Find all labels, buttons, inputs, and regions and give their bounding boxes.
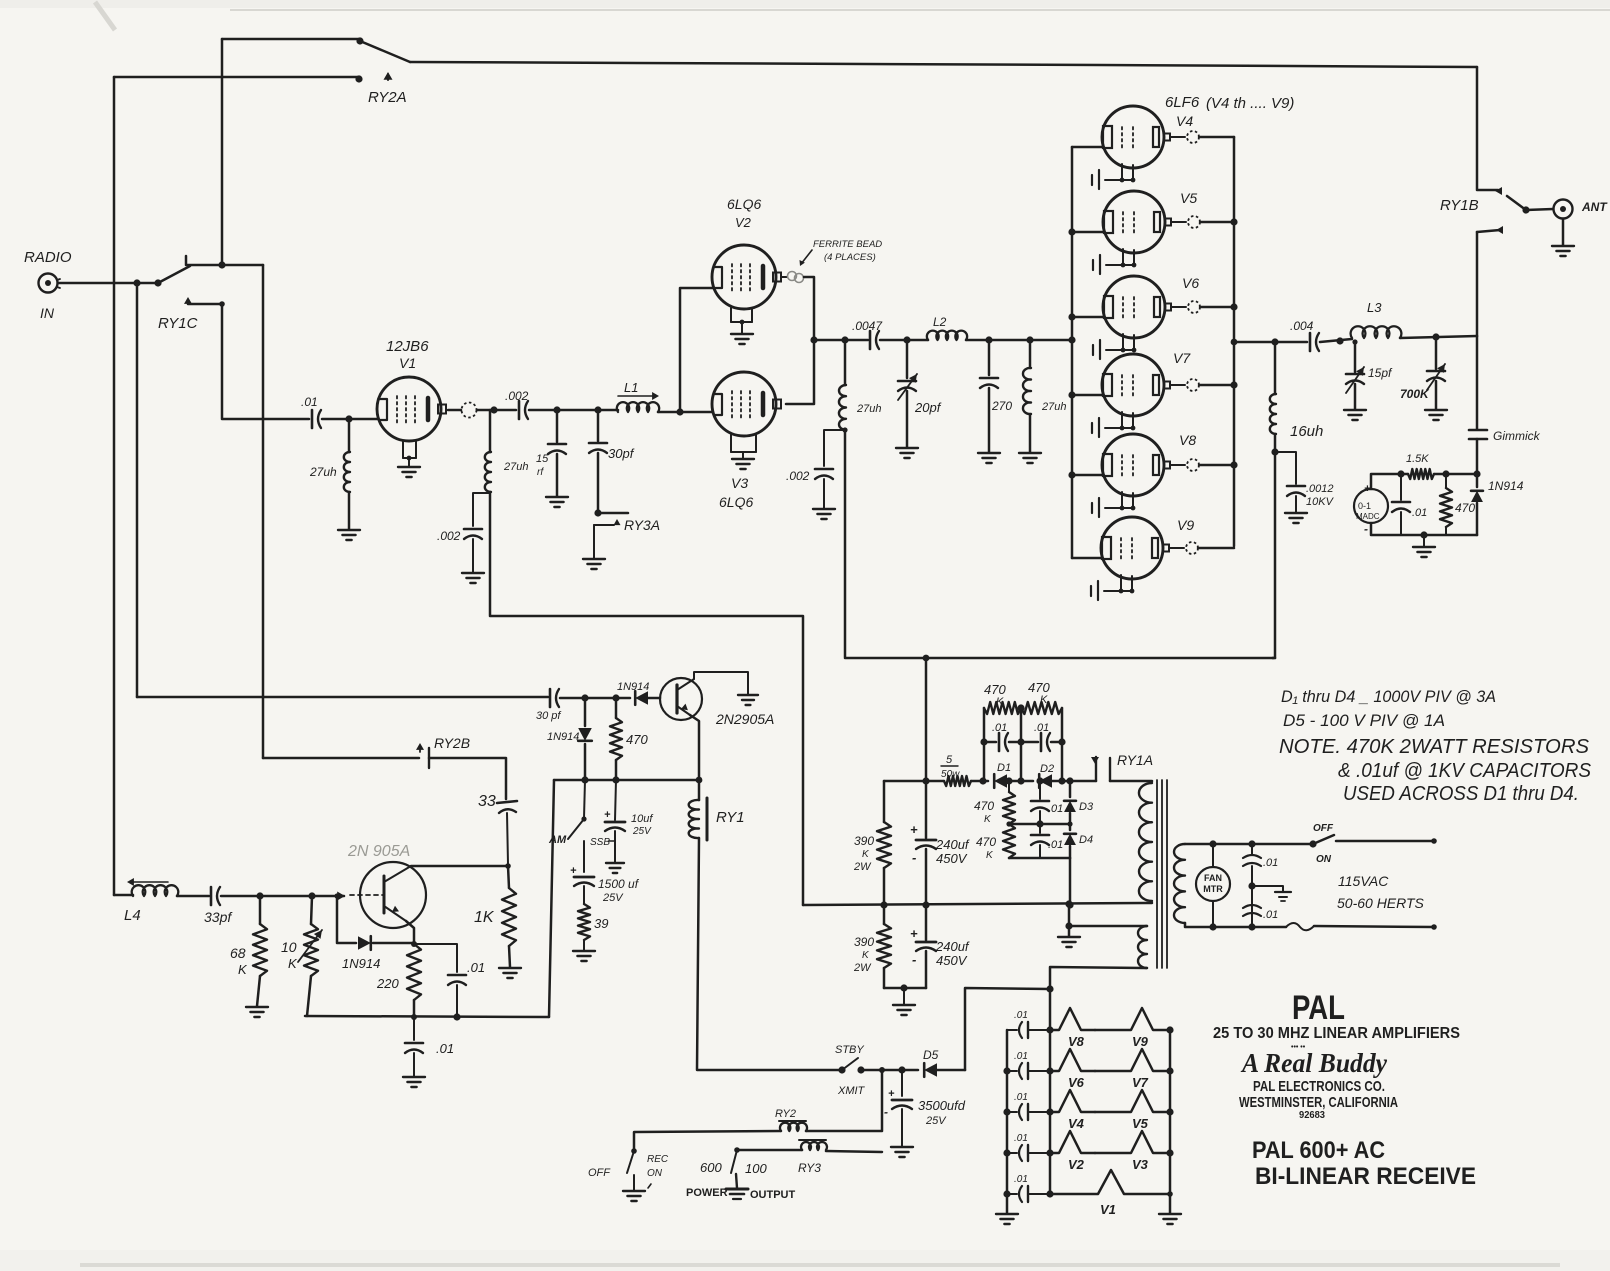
- inductor L4: [114, 894, 133, 897]
- capacitor .01 across D3: [1039, 781, 1041, 799]
- wire: V8 plate to plate bus: [1199, 464, 1234, 467]
- ground PSU bottom: [893, 1005, 915, 1015]
- wire: B+ corner to 16uh riser: [1272, 657, 1275, 660]
- wire: RY3 line to 600/100 switch: [826, 1151, 882, 1152]
- wire: diode to 2N2905A base: [648, 697, 660, 700]
- resistor 390K 2W upper: [883, 781, 886, 822]
- parasitic suppressor V5: [1095, 1090, 1170, 1112]
- svg-text:.01: .01: [1014, 1010, 1028, 1021]
- wire: V1 plate to .002: [477, 409, 516, 412]
- svg-text:RY3A: RY3A: [624, 517, 660, 533]
- ground below 700K: [1425, 410, 1447, 420]
- ground below 39: [573, 951, 595, 961]
- svg-text:V5: V5: [1180, 190, 1197, 206]
- svg-text:Gimmick: Gimmick: [1493, 429, 1541, 443]
- wire: secondary top rail to switch: [1185, 843, 1313, 846]
- parasitic suppressor V4: [1050, 1090, 1095, 1112]
- svg-text:PAL 600+ AC: PAL 600+ AC: [1252, 1137, 1385, 1164]
- ground below ANT: [1552, 246, 1574, 256]
- svg-text:470: 470: [974, 799, 994, 813]
- capacitor GIMMICK: [1476, 336, 1479, 429]
- svg-text:6LF6: 6LF6: [1165, 94, 1200, 111]
- svg-text:450V: 450V: [936, 953, 968, 968]
- svg-text:.0012: .0012: [1306, 483, 1334, 495]
- socket ring: V1 plate cap (dashed circle): [448, 409, 461, 412]
- wire: snubber bottom rail: [1009, 857, 1070, 860]
- wire: switch to ground: [736, 1174, 737, 1188]
- svg-text:.01: .01: [1014, 1051, 1028, 1062]
- svg-text:220: 220: [376, 976, 399, 991]
- svg-text:.01: .01: [1263, 909, 1278, 921]
- svg-text:REC: REC: [647, 1154, 669, 1165]
- wire: snubber row mid riser: [1020, 708, 1023, 781]
- ground below .0012: [1285, 513, 1307, 523]
- relay contact RY1B lower: [1477, 230, 1500, 232]
- meter 0-1 MADC: [1354, 489, 1388, 523]
- svg-text:.01: .01: [992, 722, 1007, 734]
- wire: bias tap to D5: [965, 988, 1050, 1070]
- svg-text:10uf: 10uf: [631, 813, 653, 825]
- svg-text:470: 470: [1028, 680, 1050, 695]
- relay switch RY1C upper contact: [186, 256, 263, 265]
- svg-text:RY1: RY1: [716, 809, 745, 826]
- svg-text:-: -: [912, 952, 916, 967]
- wire: suppressor left bus: [1006, 1030, 1009, 1213]
- svg-text:STBY: STBY: [835, 1044, 864, 1056]
- parasitic suppressor V9: [1095, 1008, 1170, 1030]
- ground below 3500ufd: [891, 1147, 913, 1157]
- svg-text:600: 600: [700, 1160, 722, 1175]
- wire: .01 row: [984, 741, 996, 744]
- capacitor 15pf to ground: [556, 410, 559, 442]
- wire: B+ riser to 16uh: [1272, 657, 1275, 660]
- tube V3 6LQ6: [712, 372, 776, 436]
- svg-text:USED ACROSS D1 thru D4.: USED ACROSS D1 thru D4.: [1343, 783, 1579, 805]
- svg-text:390: 390: [854, 834, 874, 848]
- wire: bias network rail: [305, 1016, 549, 1017]
- ground below 68K: [246, 1007, 268, 1017]
- svg-text:L4: L4: [124, 907, 141, 924]
- wire: 30pf to diode node: [560, 697, 630, 700]
- wire: 33pf to base: [221, 895, 344, 898]
- svg-text:V7: V7: [1173, 350, 1191, 366]
- relay coil RY2: [779, 1120, 806, 1122]
- svg-text:V1: V1: [399, 355, 416, 371]
- svg-text:30 pf: 30 pf: [536, 710, 561, 722]
- switch 600/100 POWER OUTPUT: [731, 1150, 737, 1173]
- svg-text:25 TO 30 MHZ LINEAR AMPLIFIERS: 25 TO 30 MHZ LINEAR AMPLIFIERS: [1213, 1025, 1460, 1042]
- svg-text:.01: .01: [1014, 1133, 1028, 1144]
- capacitor .01 across D2: [1040, 733, 1043, 751]
- wire: suppressor right bus: [1169, 1030, 1172, 1213]
- resistor 1K: [508, 866, 509, 888]
- capacitor .01 line filter upper: [1251, 844, 1253, 855]
- capacitor .01 at 220: [414, 944, 457, 972]
- svg-text:RADIO: RADIO: [24, 249, 72, 266]
- svg-text:K: K: [1040, 694, 1048, 706]
- tube V2 cathode leads to ground: [730, 308, 732, 322]
- socket ring: V6 plate cap: [1171, 306, 1186, 308]
- wire: keying rail: [554, 779, 699, 782]
- capacitor .002 interstage: [518, 401, 521, 419]
- svg-text:V7: V7: [1132, 1075, 1149, 1090]
- relay contact RY1B upper: [1477, 67, 1498, 190]
- socket ring: V9 plate cap: [1169, 547, 1184, 549]
- tube V6 6LF6: [1103, 276, 1165, 338]
- tube V2 6LQ6: [712, 245, 776, 309]
- parasitic suppressor V1: [1050, 1170, 1170, 1194]
- parasitic suppressor V6: [1050, 1049, 1095, 1071]
- capacitor 270: [988, 340, 991, 375]
- wire: V2 plate to plate riser: [786, 277, 814, 404]
- tube V7 6LF6: [1102, 354, 1164, 416]
- resistor 390K 2W lower: [883, 905, 886, 924]
- wire: grid stub to V7: [1072, 394, 1103, 397]
- svg-text:V1: V1: [1100, 1202, 1116, 1217]
- wire: snubber row left riser: [983, 708, 986, 781]
- switch SSB/AM: [584, 780, 585, 818]
- wire: 30pf line from RADIO branch: [137, 696, 548, 699]
- svg-text:PAL ELECTRONICS CO.: PAL ELECTRONICS CO.: [1253, 1078, 1385, 1095]
- svg-text:V8: V8: [1068, 1034, 1085, 1049]
- svg-text:K: K: [238, 962, 248, 977]
- svg-text:K: K: [996, 696, 1004, 708]
- wire: grid bus for 6LF6 bank: [1071, 147, 1074, 558]
- wire: RY2A lower rail: [114, 76, 359, 79]
- capacitor .01 meter bypass: [1400, 474, 1402, 500]
- wire: RY1A to transformer primary: [1110, 780, 1152, 783]
- resistor 470K across D3: [1008, 781, 1010, 792]
- capacitor .002 bypass at choke bottom: [473, 493, 490, 526]
- svg-text:D2: D2: [1040, 763, 1054, 775]
- wire: plate bus to .004: [1234, 341, 1307, 344]
- svg-text:V6: V6: [1068, 1075, 1085, 1090]
- transformer primary winding: [1139, 783, 1152, 901]
- svg-text:D₁ thru D4 _ 1000V PIV @ 3A: D₁ thru D4 _ 1000V PIV @ 3A: [1281, 687, 1496, 706]
- svg-text:D1: D1: [997, 762, 1011, 774]
- transistor 2N2905A: [660, 678, 702, 720]
- svg-text:POWER: POWER: [686, 1187, 728, 1199]
- inductor 27uh below V1 plate node (cathode rf choke): [489, 410, 492, 452]
- wire: PSU mid rail: [803, 903, 1152, 905]
- svg-text:XMIT: XMIT: [837, 1085, 866, 1097]
- svg-text:IN: IN: [40, 305, 55, 321]
- svg-text:V5: V5: [1132, 1116, 1149, 1131]
- svg-text:115VAC: 115VAC: [1338, 873, 1389, 889]
- capacitor .01 row V1: [1007, 1193, 1017, 1195]
- tube V4 6LF6: [1102, 106, 1164, 168]
- connector: RADIO IN jack: [39, 274, 58, 293]
- svg-text:RY2A: RY2A: [368, 89, 407, 106]
- inductor 16uh: [1274, 342, 1277, 394]
- fan motor: [1196, 867, 1230, 901]
- capacitor 3500ufd 25V: [901, 1070, 903, 1096]
- resistor 1.5K: [1408, 469, 1434, 479]
- svg-text:V9: V9: [1132, 1034, 1149, 1049]
- wire: grid stub to V6: [1072, 316, 1104, 319]
- relay contact RY2B: [263, 757, 419, 760]
- svg-text:470: 470: [984, 682, 1006, 697]
- wire: plate bus of 6LF6 bank: [1233, 137, 1236, 546]
- svg-text:V3: V3: [731, 475, 748, 491]
- tube V9 6LF6: [1101, 517, 1163, 579]
- socket ring: V8 plate cap: [1170, 464, 1185, 466]
- capacitor .01 row V2: [1007, 1152, 1017, 1154]
- svg-text:25V: 25V: [632, 826, 652, 837]
- capacitor .01 line filter lower: [1243, 905, 1261, 908]
- inductor 27uh screen choke (left): [844, 340, 847, 385]
- wire: vertical from RY2A upper rail to RY1C: [221, 39, 224, 264]
- svg-text:ON: ON: [647, 1168, 663, 1179]
- ground below 20pf: [896, 448, 918, 458]
- capacitor 30pf to RY3A: [597, 410, 600, 441]
- svg-text:2W: 2W: [853, 962, 872, 974]
- svg-text:L2: L2: [933, 315, 947, 329]
- svg-text:V9: V9: [1177, 517, 1194, 533]
- wire: switch to line end: [1336, 840, 1434, 843]
- svg-text:V8: V8: [1179, 432, 1196, 448]
- wire: filament winding bottom to suppressor bus: [1050, 967, 1147, 989]
- svg-text:OFF: OFF: [1313, 823, 1334, 834]
- resistor 470K top-left of bridge: [984, 702, 1021, 714]
- svg-text:V3: V3: [1132, 1157, 1149, 1172]
- svg-text:NOTE. 470K 2WATT RESISTORS: NOTE. 470K 2WATT RESISTORS: [1279, 736, 1590, 758]
- relay switch RY1C blade: [158, 266, 190, 283]
- ground below OFF/REC switch: [623, 1191, 645, 1201]
- switch OFF/ON line: [1309, 840, 1316, 847]
- inductor L2: [927, 331, 967, 340]
- svg-text:240uf: 240uf: [935, 939, 970, 954]
- wire: grid stub to V4: [1072, 146, 1103, 149]
- svg-text:33pf: 33pf: [204, 909, 233, 925]
- svg-text:OFF: OFF: [588, 1167, 611, 1179]
- relay coil RY1: [698, 780, 701, 800]
- diode 1N914 vertical: [584, 698, 587, 726]
- wire: rectifier top rail: [884, 780, 944, 783]
- svg-text:50w: 50w: [941, 769, 960, 780]
- svg-text:OUTPUT: OUTPUT: [750, 1189, 796, 1201]
- svg-text:L3: L3: [1367, 300, 1382, 315]
- wire: XMIT node to RY2 coil: [806, 1070, 882, 1131]
- svg-text:.01: .01: [1014, 1092, 1028, 1103]
- svg-text:.01: .01: [1412, 507, 1427, 519]
- svg-text:.01: .01: [301, 395, 318, 409]
- wire: grid node up to V2 grid: [680, 288, 713, 412]
- svg-text:& .01uf @ 1KV CAPACITORS: & .01uf @ 1KV CAPACITORS: [1338, 760, 1592, 782]
- svg-text:.004: .004: [1290, 319, 1314, 333]
- svg-text:20pf: 20pf: [914, 400, 942, 415]
- svg-text:270: 270: [991, 399, 1012, 413]
- svg-text:FERRITE BEAD: FERRITE BEAD: [813, 239, 882, 250]
- wire: switch to D5: [861, 1069, 918, 1072]
- tube V1 cathode leads and ground: [402, 441, 404, 458]
- wire: choke down to B+ rail: [844, 430, 847, 657]
- parasitic suppressor V8: [1050, 1008, 1095, 1030]
- wire: meter top rail: [1371, 474, 1408, 489]
- wire: cap to V1 grid: [322, 418, 377, 421]
- svg-text:1N914: 1N914: [342, 956, 380, 971]
- svg-text:12JB6: 12JB6: [386, 338, 429, 355]
- svg-text:RY3: RY3: [798, 1161, 821, 1175]
- resistor 470 base: [615, 698, 618, 718]
- svg-text:D4: D4: [1079, 834, 1093, 846]
- diode D4: [1069, 824, 1072, 830]
- svg-text:2W: 2W: [853, 861, 872, 873]
- wire: RY3 coil to switch: [737, 1149, 802, 1152]
- diode D5: [924, 1063, 937, 1077]
- wire: L2 to grid bus: [966, 339, 1072, 342]
- svg-text:6LQ6: 6LQ6: [719, 494, 753, 510]
- diode 1N914 horizontal: [635, 691, 648, 705]
- svg-text:+: +: [604, 809, 611, 821]
- wire: suppressor feed bus: [1049, 989, 1052, 1194]
- svg-text:240uf: 240uf: [935, 837, 970, 852]
- wire: PSU bottom mini rail: [884, 987, 926, 990]
- svg-text:V4: V4: [1176, 113, 1193, 129]
- node: RY2A upper rail wire: [222, 38, 360, 41]
- capacitor .0047: [869, 331, 872, 349]
- ground below 10uf: [606, 863, 624, 873]
- socket ring: V4 plate cap: [1170, 136, 1185, 138]
- wire: RY1C lower contact to V1 grid: [222, 304, 309, 419]
- relay contact RY1C lower: [184, 297, 192, 304]
- wire: ANT jack to ground: [1562, 219, 1565, 245]
- svg-text:470: 470: [1455, 501, 1475, 515]
- resistor 39: [578, 904, 590, 940]
- svg-text:33: 33: [478, 793, 496, 810]
- parasitic suppressor V7: [1095, 1049, 1170, 1071]
- wire: fan motor leads: [1212, 844, 1214, 867]
- wire: screen bus from plate riser: [814, 339, 868, 342]
- socket ring: V7 plate cap: [1170, 384, 1185, 386]
- svg-text:-: -: [884, 1105, 888, 1119]
- svg-text:.01: .01: [1048, 839, 1063, 851]
- ground below .01: [403, 1077, 425, 1087]
- svg-text:1500 uf: 1500 uf: [598, 877, 640, 891]
- svg-text:27uh: 27uh: [856, 403, 881, 415]
- svg-text:3500ufd: 3500ufd: [918, 1098, 966, 1113]
- resistor 68K: [259, 896, 262, 924]
- relay contact RY2A arrow: [384, 72, 393, 80]
- svg-text:470: 470: [626, 732, 648, 747]
- svg-text:FAN: FAN: [1204, 873, 1222, 883]
- capacitor 10uf 25V: [615, 780, 616, 820]
- wire: 2N905A top lead to 1K node: [411, 865, 506, 868]
- fuse squiggle on line: [1286, 923, 1314, 930]
- wire: D5 to bias tap: [937, 1069, 965, 1072]
- ground for meter circuit: [1423, 535, 1425, 546]
- svg-text:K: K: [288, 956, 298, 971]
- capacitor 240uf 450V upper: [925, 781, 928, 838]
- wire: feed from B+ down to rectifier rail: [925, 658, 928, 781]
- diode D1: [994, 774, 1007, 788]
- svg-text:V2: V2: [735, 215, 752, 230]
- svg-text:+: +: [888, 1088, 895, 1100]
- svg-text:.01: .01: [1048, 803, 1063, 815]
- svg-text:1N914: 1N914: [1488, 479, 1524, 493]
- inductor L1: [617, 402, 659, 412]
- svg-text:RY1B: RY1B: [1440, 197, 1479, 214]
- svg-text:+: +: [910, 926, 918, 941]
- svg-text:68: 68: [230, 945, 246, 961]
- wire: 2N2905A emitter to ground: [694, 672, 748, 694]
- capacitor .0012 10KV: [1275, 452, 1296, 484]
- svg-text:.01: .01: [1263, 857, 1278, 869]
- transistor 2N905A: [360, 862, 426, 928]
- ground below 1K: [499, 968, 521, 978]
- svg-text:SSB: SSB: [590, 837, 610, 848]
- svg-text:MADC: MADC: [1356, 512, 1380, 521]
- variable capacitor 20pf: [906, 340, 909, 378]
- svg-text:.01: .01: [1034, 722, 1049, 734]
- svg-text:10: 10: [281, 939, 297, 955]
- wire: switch to ground: [633, 1175, 635, 1190]
- resistor 5 ohm 50w: [944, 776, 971, 786]
- parasitic suppressor V3: [1095, 1131, 1170, 1153]
- svg-text:470: 470: [976, 835, 996, 849]
- svg-text:2N2905A: 2N2905A: [715, 711, 774, 727]
- socket ring: V5 plate cap: [1171, 221, 1186, 223]
- wire: V7 plate to plate bus: [1199, 384, 1234, 387]
- capacitor .01 row V4: [1007, 1111, 1017, 1113]
- relay switch RY2A blade: [360, 41, 410, 62]
- svg-text:15pf: 15pf: [1368, 366, 1393, 380]
- parasitic suppressor V2: [1050, 1131, 1095, 1153]
- wire: secondary bottom rail: [1185, 923, 1286, 927]
- wire: B+ line across: [845, 657, 1273, 660]
- wire: V6 plate to plate bus: [1200, 306, 1234, 309]
- svg-text:450V: 450V: [936, 851, 968, 866]
- wire: left outer vertical from RY2A rail down to L4: [113, 77, 116, 895]
- wire: RY1B to ANT jack: [1526, 209, 1553, 210]
- transformer core: [1157, 780, 1167, 968]
- relay contact RY3A: [598, 512, 628, 515]
- arrow to ferrite bead: [801, 250, 812, 264]
- svg-text:1.5K: 1.5K: [1406, 453, 1429, 465]
- svg-text:10KV: 10KV: [1306, 496, 1335, 508]
- ground below 15pf: [546, 497, 568, 507]
- svg-text:V2: V2: [1068, 1157, 1085, 1172]
- svg-text:0-1: 0-1: [1358, 501, 1371, 511]
- svg-text:390: 390: [854, 935, 874, 949]
- svg-text:V6: V6: [1182, 275, 1199, 291]
- capacitor .002 bypass under screen choke: [824, 430, 845, 466]
- tube V8 6LF6: [1102, 434, 1164, 496]
- ground below 27uh right: [1019, 453, 1041, 463]
- wire: V9 plate to plate bus: [1198, 547, 1234, 550]
- svg-text:6LQ6: 6LQ6: [727, 196, 761, 212]
- ground below 15pf: [1344, 410, 1366, 420]
- tube V3 cathode box and ground: [730, 435, 732, 452]
- capacitor .01 to ground under rail: [413, 1017, 415, 1040]
- transformer HV secondary winding: [1174, 844, 1185, 923]
- diode D2: [1039, 774, 1052, 788]
- tube V5 6LF6: [1103, 191, 1165, 253]
- svg-text:(V4 th .... V9): (V4 th .... V9): [1206, 95, 1294, 112]
- wire: L4 to 33pf: [177, 895, 209, 898]
- svg-text:RY2: RY2: [775, 1108, 796, 1120]
- svg-text:16uh: 16uh: [1290, 423, 1323, 440]
- svg-text:25V: 25V: [925, 1115, 947, 1127]
- svg-text:-: -: [1364, 522, 1368, 536]
- svg-text:5: 5: [946, 754, 953, 766]
- svg-text:PAL: PAL: [1292, 989, 1345, 1027]
- wire: D2 to RY1A: [1052, 780, 1096, 783]
- variable capacitor 700K: [1435, 337, 1438, 369]
- svg-text:100: 100: [745, 1161, 767, 1176]
- wire: rail down to bias network rail: [549, 780, 554, 1017]
- capacitor 240uf 450V lower: [925, 905, 928, 940]
